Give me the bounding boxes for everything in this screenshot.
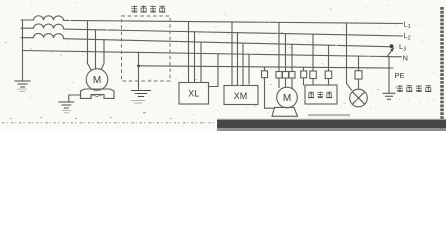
svg-text:M: M (93, 75, 101, 86)
svg-text:PE: PE (395, 71, 405, 80)
svg-text:M: M (283, 93, 291, 104)
svg-text:XM: XM (234, 91, 248, 101)
svg-text:XL: XL (188, 89, 199, 99)
svg-text:N: N (403, 54, 408, 63)
